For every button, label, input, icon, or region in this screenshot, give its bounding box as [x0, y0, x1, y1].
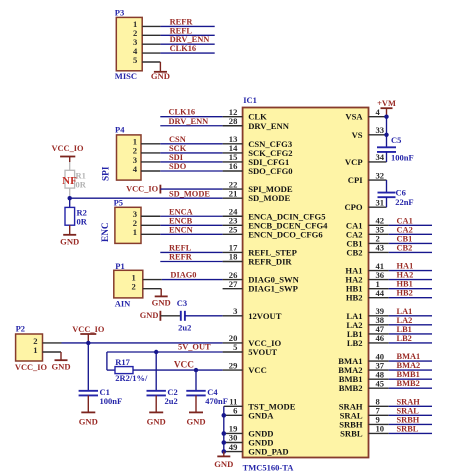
svg-text:45: 45	[376, 378, 385, 388]
svg-text:ENCN_DCO_CFG6: ENCN_DCO_CFG6	[248, 229, 323, 239]
svg-text:LB1: LB1	[397, 325, 412, 334]
svg-text:HA2: HA2	[397, 271, 414, 280]
svg-text:CA2: CA2	[397, 225, 413, 234]
svg-text:100nF: 100nF	[100, 396, 123, 406]
svg-text:CB1: CB1	[397, 234, 413, 243]
svg-text:5: 5	[233, 342, 237, 352]
svg-text:SDI: SDI	[169, 153, 183, 162]
svg-text:BMB1: BMB1	[397, 370, 420, 379]
svg-text:0R: 0R	[77, 217, 88, 227]
svg-text:CPI: CPI	[348, 175, 363, 185]
svg-text:2: 2	[132, 281, 136, 291]
svg-text:REFR_DIR: REFR_DIR	[248, 257, 292, 267]
svg-text:SRBL: SRBL	[340, 428, 363, 438]
svg-text:REFR: REFR	[169, 253, 193, 262]
svg-text:R17: R17	[115, 357, 130, 367]
svg-text:18: 18	[229, 252, 238, 262]
svg-text:6: 6	[233, 406, 238, 416]
svg-text:BMB2: BMB2	[339, 383, 363, 393]
svg-text:470nF: 470nF	[205, 396, 228, 406]
svg-text:CSN: CSN	[169, 135, 186, 144]
svg-text:VCC: VCC	[174, 361, 194, 371]
svg-text:VCC_IO: VCC_IO	[15, 363, 48, 372]
svg-text:CPO: CPO	[344, 202, 362, 212]
svg-text:SRBL: SRBL	[397, 424, 419, 433]
svg-text:100nF: 100nF	[391, 152, 414, 162]
svg-text:GND_PAD: GND_PAD	[248, 447, 288, 457]
svg-text:GND: GND	[51, 362, 70, 372]
svg-text:VCP: VCP	[345, 157, 363, 167]
svg-text:HB2: HB2	[397, 289, 413, 298]
svg-text:DRV_ENN: DRV_ENN	[169, 117, 209, 126]
svg-text:29: 29	[229, 360, 238, 370]
svg-text:SPI: SPI	[102, 166, 112, 181]
svg-text:46: 46	[376, 333, 385, 343]
svg-text:BMB2: BMB2	[397, 379, 420, 388]
svg-text:CB2: CB2	[346, 247, 362, 257]
svg-text:+VM: +VM	[377, 99, 396, 108]
svg-text:44: 44	[376, 288, 385, 298]
svg-text:LA2: LA2	[397, 316, 413, 325]
svg-text:REFL: REFL	[170, 26, 193, 35]
svg-text:VCC_IO: VCC_IO	[51, 144, 84, 153]
svg-text:21: 21	[229, 188, 238, 198]
svg-text:GND: GND	[147, 416, 166, 426]
svg-text:TMC5160-TA: TMC5160-TA	[243, 463, 295, 473]
svg-text:GND: GND	[60, 237, 79, 247]
svg-text:ENC: ENC	[101, 222, 111, 242]
svg-text:VCC: VCC	[248, 365, 267, 375]
svg-text:GND: GND	[151, 71, 170, 81]
svg-text:HA1: HA1	[397, 262, 414, 271]
svg-text:1: 1	[33, 345, 37, 355]
svg-text:22nF: 22nF	[395, 197, 413, 207]
svg-text:NF: NF	[62, 175, 77, 187]
svg-text:LA1: LA1	[397, 307, 413, 316]
svg-text:1: 1	[133, 227, 137, 237]
svg-text:C5: C5	[391, 135, 401, 145]
svg-text:VSA: VSA	[345, 112, 363, 122]
svg-text:4: 4	[133, 164, 138, 174]
svg-text:DRV_ENN: DRV_ENN	[170, 35, 210, 44]
svg-text:16: 16	[229, 161, 238, 171]
svg-text:SDO: SDO	[169, 162, 187, 171]
svg-text:LB2: LB2	[397, 334, 412, 343]
svg-text:GND: GND	[140, 311, 159, 320]
svg-text:P4: P4	[115, 124, 125, 134]
svg-text:GND: GND	[186, 416, 205, 426]
svg-text:SRAL: SRAL	[397, 406, 420, 415]
svg-text:IC1: IC1	[243, 95, 257, 105]
svg-text:5: 5	[133, 55, 137, 65]
svg-text:27: 27	[229, 279, 238, 289]
svg-text:4: 4	[376, 107, 381, 117]
svg-text:DRV_ENN: DRV_ENN	[248, 121, 290, 131]
svg-text:AIN: AIN	[115, 298, 131, 308]
svg-text:GNDA: GNDA	[248, 410, 274, 420]
svg-text:P5: P5	[114, 198, 123, 208]
svg-text:33: 33	[376, 125, 385, 135]
svg-text:0R: 0R	[76, 180, 87, 190]
svg-text:DIAG0: DIAG0	[170, 271, 196, 280]
svg-text:VCC_IO: VCC_IO	[72, 325, 105, 334]
svg-text:SDO_CFG0: SDO_CFG0	[248, 166, 292, 176]
svg-text:ENCA: ENCA	[169, 207, 193, 216]
svg-text:LB2: LB2	[347, 338, 363, 348]
svg-text:REFR: REFR	[170, 17, 194, 26]
svg-text:C3: C3	[177, 298, 187, 308]
svg-text:28: 28	[229, 116, 238, 126]
svg-text:MISC: MISC	[115, 71, 137, 81]
svg-text:31: 31	[376, 197, 385, 207]
svg-text:P1: P1	[115, 261, 124, 271]
svg-text:49: 49	[229, 442, 238, 452]
svg-text:ENCB: ENCB	[169, 216, 193, 225]
svg-text:32: 32	[376, 170, 385, 180]
svg-text:2R2/1%/: 2R2/1%/	[115, 373, 148, 383]
svg-text:SRBH: SRBH	[397, 415, 420, 424]
svg-text:HB2: HB2	[346, 293, 363, 303]
svg-text:2u2: 2u2	[165, 396, 178, 406]
svg-text:5V_OUT: 5V_OUT	[178, 343, 211, 352]
svg-text:REFL: REFL	[169, 243, 192, 252]
svg-text:GND: GND	[214, 459, 233, 469]
svg-text:5VOUT: 5VOUT	[248, 347, 277, 357]
svg-text:HB1: HB1	[397, 280, 413, 289]
svg-text:P3: P3	[115, 8, 124, 18]
svg-text:3: 3	[233, 306, 237, 316]
svg-text:43: 43	[376, 243, 385, 253]
svg-text:VCC_IO: VCC_IO	[126, 185, 159, 194]
svg-text:CB2: CB2	[397, 243, 413, 252]
svg-text:GND: GND	[79, 416, 98, 426]
svg-text:CLK16: CLK16	[169, 108, 196, 117]
svg-text:34: 34	[376, 152, 385, 162]
svg-text:25: 25	[229, 225, 238, 235]
svg-text:SCK: SCK	[169, 144, 187, 153]
svg-text:VS: VS	[352, 130, 363, 140]
svg-text:CA1: CA1	[397, 216, 413, 225]
svg-text:ENCN: ENCN	[169, 225, 193, 234]
svg-text:12VOUT: 12VOUT	[248, 311, 282, 321]
svg-text:CLK16: CLK16	[170, 44, 197, 53]
svg-text:SD_MODE: SD_MODE	[248, 193, 290, 203]
svg-text:10: 10	[376, 424, 385, 434]
svg-text:GND: GND	[152, 298, 171, 308]
svg-text:DIAG1_SWP: DIAG1_SWP	[248, 284, 298, 294]
svg-text:P2: P2	[16, 324, 25, 334]
svg-text:BMA1: BMA1	[397, 352, 421, 361]
svg-text:SD_MODE: SD_MODE	[169, 189, 210, 198]
svg-text:SRAH: SRAH	[397, 397, 421, 406]
svg-text:2u2: 2u2	[178, 323, 191, 333]
svg-text:BMA2: BMA2	[397, 361, 421, 370]
